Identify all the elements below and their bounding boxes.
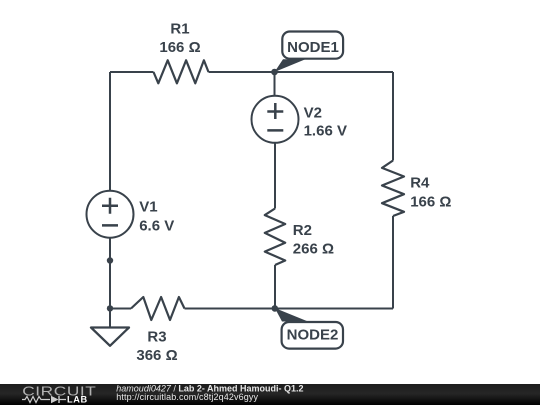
- svg-text:LAB: LAB: [67, 395, 88, 405]
- svg-text:366 Ω: 366 Ω: [136, 347, 177, 364]
- svg-text:NODE1: NODE1: [287, 39, 339, 56]
- svg-text:R2: R2: [293, 222, 312, 239]
- svg-text:266 Ω: 266 Ω: [293, 241, 334, 258]
- svg-text:1.66 V: 1.66 V: [304, 122, 347, 139]
- svg-text:166 Ω: 166 Ω: [410, 194, 451, 211]
- svg-text:NODE2: NODE2: [287, 326, 339, 343]
- svg-text:R4: R4: [410, 175, 430, 192]
- svg-text:V1: V1: [139, 198, 157, 215]
- svg-text:166 Ω: 166 Ω: [159, 39, 200, 56]
- svg-text:R1: R1: [170, 20, 189, 37]
- svg-text:6.6 V: 6.6 V: [139, 217, 174, 234]
- svg-text:V2: V2: [304, 104, 322, 121]
- svg-text:R3: R3: [147, 328, 166, 345]
- svg-text:http://circuitlab.com/c8tj2q42: http://circuitlab.com/c8tj2q42v6gyy: [116, 392, 258, 402]
